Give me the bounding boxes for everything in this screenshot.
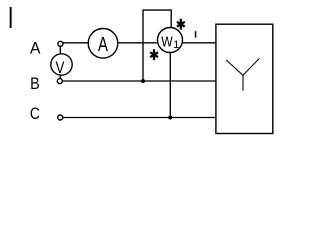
- current label I: [195, 31, 197, 37]
- terminal C: [58, 115, 63, 120]
- terminal A: [58, 41, 63, 46]
- svg-text:A: A: [98, 32, 108, 55]
- junction dot on phase C: [168, 116, 172, 120]
- wye (star) load symbol: [226, 58, 259, 91]
- polarity mark (voltage coil): [150, 49, 158, 60]
- load box: [216, 24, 273, 133]
- wattmeter W1: [158, 28, 183, 53]
- polarity mark (current coil): [177, 19, 185, 30]
- voltmeter V: [51, 54, 72, 77]
- svg-text:1: 1: [173, 39, 179, 51]
- ammeter A: [88, 29, 118, 59]
- terminal B: [57, 79, 62, 84]
- svg-text:W: W: [161, 33, 173, 49]
- text cursor: [10, 7, 12, 28]
- wire voltmeter branch: [59, 44, 61, 81]
- wire phase B: [62, 80, 216, 82]
- wire wattmeter voltage coil loop: [143, 10, 171, 81]
- wire phase C: [63, 117, 216, 119]
- svg-text:C: C: [30, 105, 40, 124]
- svg-text:B: B: [30, 75, 40, 93]
- junction dot on phase B: [141, 79, 145, 83]
- wire wattmeter bottom to phase C: [169, 40, 171, 118]
- wire phase A: [63, 42, 216, 44]
- svg-text:V: V: [56, 60, 65, 77]
- svg-text:A: A: [30, 39, 41, 58]
